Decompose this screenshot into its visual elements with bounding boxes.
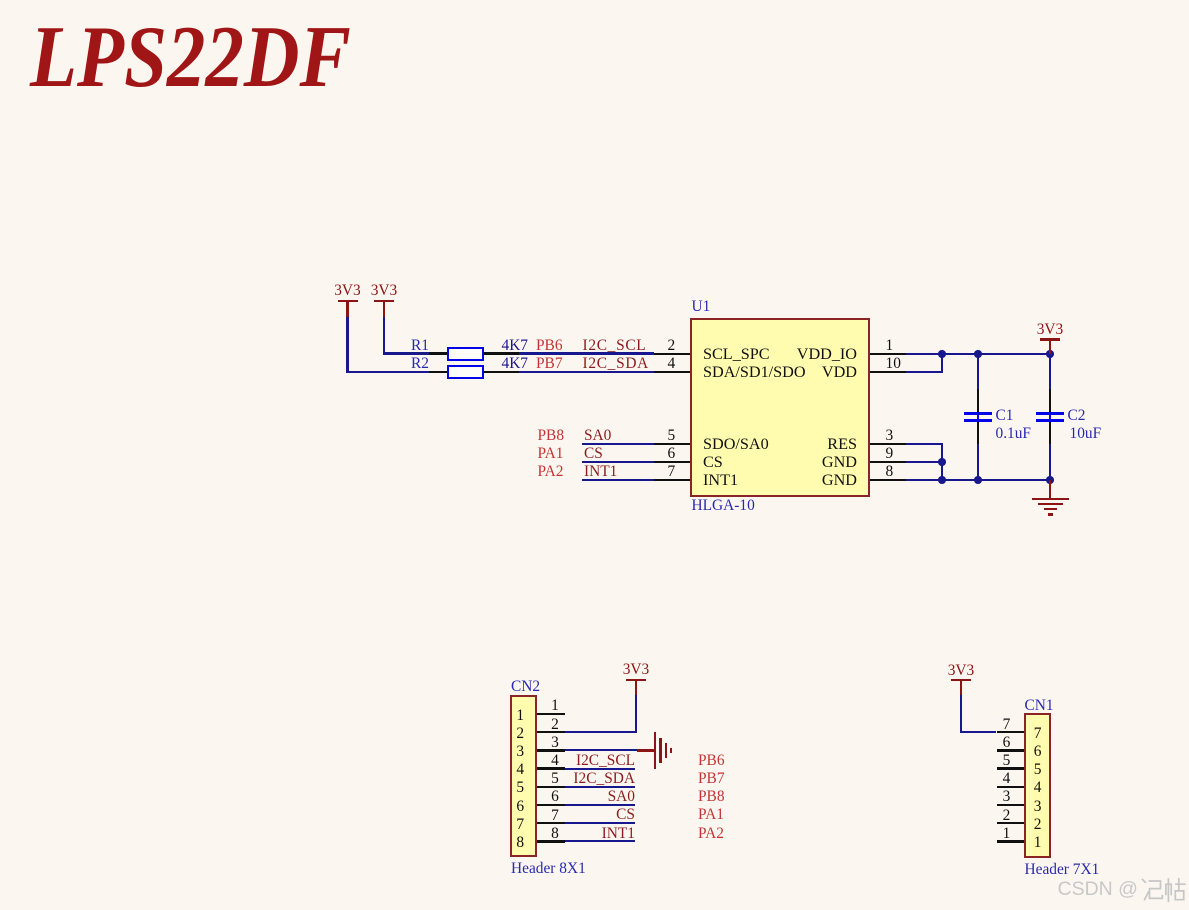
U1 pin 10 VDD stub [870, 371, 906, 374]
CN2 pin 6 number [405, 789, 705, 804]
CN2 pin 3 number [405, 735, 705, 750]
U1 pin name SDA/SD1/SDO [703, 364, 806, 380]
CN2 pin 7 number [405, 808, 705, 823]
power port 3V3 CN1 supply [0, 0, 1189, 1]
CN2 pin name 7 [370, 817, 670, 832]
chassis ground symbol at CN2 pin3 [0, 0, 1189, 1]
resistor R2 value 4K7 [502, 356, 529, 371]
C1 value 0.1uF [996, 426, 1032, 441]
CN2 pin 4 stub [537, 767, 565, 770]
net label I2C_SDA [583, 356, 649, 371]
wire SA0 to U1 [582, 443, 654, 445]
label PA1 at CN2 [698, 807, 724, 822]
wire R2 to U1 pin 4 [519, 371, 655, 373]
wire R1 to U1 pin 2 [519, 352, 655, 354]
U1 pin 6 number [521, 446, 821, 461]
CN2 pin 1 stub [537, 713, 565, 716]
label PB7 [536, 356, 563, 371]
CN1 pin name 6 [888, 744, 1188, 759]
label PA1 [538, 446, 564, 461]
CN1 pin 4 number [857, 771, 1157, 786]
CN2 pin name 2 [370, 726, 670, 741]
CN1 pin 6 stub [997, 749, 1025, 752]
CN2 pin 3 stub [537, 749, 565, 752]
net label I2C_SDA at CN2 [335, 771, 635, 786]
CN1 pin name 2 [888, 817, 1188, 832]
net label SA0 at CN2 [335, 789, 635, 804]
CN2 pin name 6 [370, 799, 670, 814]
CN1 pin name 3 [888, 799, 1188, 814]
CN2 pin name 1 [370, 708, 670, 723]
CN1 pin 6 number [857, 735, 1157, 750]
label PB8 at CN2 [698, 789, 725, 804]
U1 pin 2 number [521, 338, 821, 353]
wire CN2 pin 6 net SA0 [565, 804, 635, 806]
U1 pin 4 SDA/SD1/SDO stub [654, 371, 690, 374]
capacitor C2 [0, 0, 1189, 1]
wire CN2 pin 8 net INT1 [565, 840, 635, 842]
net label INT1 [584, 464, 617, 479]
connector CN1 body [1024, 713, 1051, 858]
junction at 3V3 / C2 [1046, 350, 1054, 358]
3V3 stem to rail [1049, 340, 1052, 354]
watermark chinese glyphs [1133, 878, 1189, 903]
power port 3V3 CN2 supply [0, 0, 1189, 1]
net label CS [584, 446, 603, 461]
wire CN2 pin 7 net CS [565, 822, 635, 824]
CN1 pin 1 number [857, 826, 1157, 841]
U1 pin name CS [703, 454, 723, 470]
U1 pin 5 number [521, 428, 821, 443]
junction at pin1 rail / pin10 [938, 350, 946, 358]
U1 pin 3 number [886, 428, 894, 443]
U1 pin name SDO/SA0 [703, 436, 769, 452]
wire U1 pin1 to 3V3 rail [906, 353, 1051, 355]
wire U1 pin8 GND rail [906, 479, 1051, 481]
C2 value 10uF [1070, 426, 1102, 441]
junction at GND rail / C2 [1046, 476, 1054, 484]
capacitor C1 [0, 0, 1189, 1]
ground symbol [0, 0, 1189, 1]
label PB6 at CN2 [698, 753, 725, 768]
CN1 pin 5 number [857, 753, 1157, 768]
U1 footprint HLGA-10 [692, 498, 755, 513]
CN2 pin 8 stub [537, 840, 565, 843]
CN2 pin 4 number [405, 753, 705, 768]
IC U1 body [690, 318, 870, 497]
label PA2 at CN2 [698, 826, 724, 841]
wire U1 pin9 to GND rail [906, 461, 943, 463]
junction at GND rail / pin3 branch [938, 476, 946, 484]
junction at pin9 / vertical [938, 458, 946, 466]
CN2 pin name 8 [370, 835, 670, 850]
U1 pin name RES [557, 436, 857, 452]
CN1 pin 2 number [857, 808, 1157, 823]
CN1 pin name 4 [888, 780, 1188, 795]
CN1 pin 3 number [857, 789, 1157, 804]
label PB7 at CN2 [698, 771, 725, 786]
U1 pin 7 number [521, 464, 821, 479]
CN2 pin 2 stub [537, 731, 565, 734]
CN2 pin 5 number [405, 771, 705, 786]
U1 pin 3 RES stub [870, 443, 906, 446]
power port 3V3 main supply [0, 0, 1189, 1]
CN2 pin name 5 [370, 780, 670, 795]
wire U1 pin3 down to GND rail [0, 0, 1189, 1]
title LPS22DF [30, 13, 351, 101]
C1 designator [996, 408, 1014, 423]
label PB6 [536, 338, 563, 353]
CN1 pin name 7 [888, 726, 1188, 741]
watermark CSDN [1058, 880, 1138, 900]
CN1 pin 5 stub [997, 767, 1025, 770]
CN1 pin 7 stub [997, 731, 1025, 734]
U1 pin 1 VDD_IO stub [870, 353, 906, 356]
CN2 pin 8 number [405, 826, 705, 841]
U1 pin 9 number [886, 446, 894, 461]
U1 designator [692, 299, 711, 314]
CN1 pin name 5 [888, 762, 1188, 777]
U1 pin 8 number [886, 464, 894, 479]
resistor R2 [0, 0, 1189, 1]
label PB8 [538, 428, 565, 443]
net label CS at CN2 [335, 807, 635, 822]
wire INT1 to U1 [582, 479, 654, 481]
U1 pin 2 SCL_SPC stub [654, 353, 690, 356]
CN2 pin 7 stub [537, 822, 565, 825]
CN1 pin 3 stub [997, 804, 1025, 807]
power port 3V3 for R1 pull-up [0, 0, 1189, 1]
CN2 pin 6 stub [537, 804, 565, 807]
CN1 designator [1025, 698, 1054, 713]
U1 pin name VDD [557, 364, 857, 380]
CN1 pin 2 stub [997, 822, 1025, 825]
wire CS to U1 [582, 461, 654, 463]
CN2 pin name 3 [370, 744, 670, 759]
wire 3V3#2 to R1 [0, 0, 1189, 1]
CN1 pin 1 stub [997, 840, 1025, 843]
wire CN2 pin 5 net I2C_SDA [565, 786, 635, 788]
U1 pin 9 GND stub [870, 461, 906, 464]
net label INT1 at CN2 [335, 826, 635, 841]
junction at pin1 rail / C1 [974, 350, 982, 358]
wire CN1 pin7 to 3V3 [0, 0, 1189, 1]
CN1 pin name 1 [888, 835, 1188, 850]
resistor R1 designator [129, 338, 429, 353]
CN2 designator [511, 679, 540, 694]
connector CN2 body [510, 695, 537, 857]
U1 pin 1 number [886, 338, 894, 353]
U1 pin 5 SDO/SA0 stub [654, 443, 690, 446]
U1 pin 10 number [886, 356, 901, 371]
resistor R1 value 4K7 [502, 338, 529, 353]
wire U1 pin10 up to pin1 rail [0, 0, 1189, 1]
U1 pin name GND [557, 472, 857, 488]
power port 3V3 for R2 pull-up [0, 0, 1189, 1]
U1 pin 4 number [521, 356, 821, 371]
CN2 type Header 8X1 [511, 861, 586, 876]
net label SA0 [584, 428, 611, 443]
label PA2 [538, 464, 564, 479]
CN2 pin 1 number [405, 698, 705, 713]
U1 pin name VDD_IO [557, 346, 857, 362]
CN2 pin 2 number [405, 717, 705, 732]
CN1 pin 4 stub [997, 786, 1025, 789]
net label I2C_SCL at CN2 [335, 753, 635, 768]
wire CN2 pin 4 net I2C_SCL [565, 768, 635, 770]
CN1 type Header 7X1 [1025, 862, 1100, 877]
U1 pin 8 GND stub [870, 479, 906, 482]
C2 designator [1068, 408, 1086, 423]
U1 pin name GND [557, 454, 857, 470]
resistor R1 [0, 0, 1189, 1]
CN2 pin name 4 [370, 762, 670, 777]
resistor R2 designator [129, 356, 429, 371]
net label I2C_SCL [583, 338, 647, 353]
CN2 pin 5 stub [537, 786, 565, 789]
U1 pin name SCL_SPC [703, 346, 770, 362]
U1 pin name INT1 [703, 472, 738, 488]
junction at GND rail / C1 [974, 476, 982, 484]
wire 3V3#1 to R2 [0, 0, 1189, 1]
wire CN2 pin2 to 3V3 [0, 0, 1189, 1]
U1 pin 7 INT1 stub [654, 479, 690, 482]
wire CN2 pin3 to chassis ground [0, 0, 1189, 1]
U1 pin 6 CS stub [654, 461, 690, 464]
CN1 pin 7 number [857, 717, 1157, 732]
